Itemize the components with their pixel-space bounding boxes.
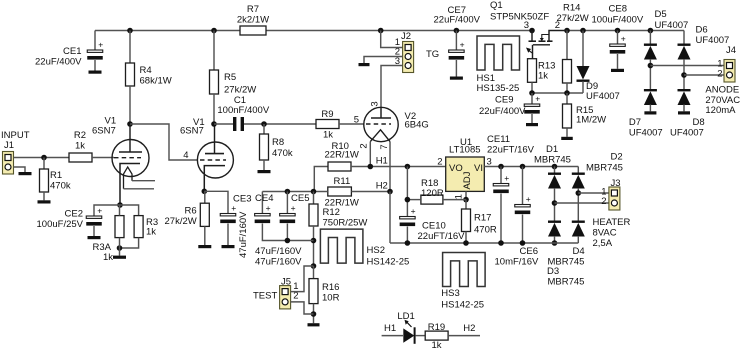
capacitor CE8 [610, 34, 626, 54]
wire J1 pin1 to R2 [14, 157, 70, 159]
wire R16 bottom [313, 304, 315, 324]
svg-text:47uF/160V: 47uF/160V [238, 211, 249, 258]
svg-text:+: + [411, 206, 416, 216]
wire R15 top [566, 93, 568, 104]
svg-text:D4: D4 [573, 246, 585, 257]
ground under CE7 [450, 77, 463, 80]
wire LED to R19 [416, 335, 426, 337]
svg-text:J2: J2 [401, 31, 411, 42]
svg-text:1k: 1k [103, 252, 113, 263]
capacitor CE9 [524, 94, 540, 114]
label CE2 [65, 209, 83, 220]
pin label J5-1 [293, 281, 298, 292]
value D3 MBR745 [548, 277, 585, 288]
resistor R14 [563, 60, 572, 84]
value R10 22R/1W [325, 150, 359, 161]
svg-text:CE11: CE11 [487, 134, 510, 145]
wire cathode bus [262, 191, 327, 193]
svg-text:1k: 1k [538, 71, 548, 82]
svg-text:3: 3 [370, 101, 381, 106]
svg-text:UF4007: UF4007 [670, 128, 704, 139]
label R19 [428, 322, 445, 333]
value CE10 22uFT/16V [418, 231, 466, 242]
wire R3A bottom [119, 238, 121, 256]
svg-text:R19: R19 [428, 322, 445, 333]
connector J4 [724, 60, 735, 83]
svg-text:H2: H2 [463, 323, 475, 334]
wire V1a anode lead [129, 124, 131, 152]
label 8VAC [593, 228, 617, 239]
label J4 [726, 45, 736, 56]
node R18 left junction [405, 197, 411, 203]
svg-text:R5: R5 [224, 72, 236, 83]
label R7 [247, 4, 259, 15]
node R8 top [261, 121, 267, 127]
svg-text:R3A: R3A [93, 242, 112, 253]
label R16 [322, 282, 339, 293]
svg-text:27k/2W: 27k/2W [165, 216, 197, 227]
label R3A [93, 242, 112, 253]
wire J1 pin2 ground stub [14, 167, 26, 172]
label R17 [474, 213, 491, 224]
wire V1a anode to V1b grid [130, 124, 198, 160]
diode D5 [644, 44, 657, 60]
value D4 MBR745 [548, 257, 585, 268]
wire R1 top [43, 158, 45, 170]
svg-text:D5: D5 [655, 9, 667, 20]
svg-text:1k: 1k [75, 141, 85, 152]
resistor R19 [425, 331, 448, 340]
svg-text:+: + [291, 203, 296, 213]
svg-text:CE6: CE6 [520, 246, 538, 257]
wire R10 left corner [314, 167, 328, 192]
wire R15 bottom [566, 128, 568, 137]
regulator U1 LT1085 box [446, 157, 485, 191]
value D1 MBR745 [534, 155, 571, 166]
svg-text:CE2: CE2 [65, 209, 83, 220]
diode D1 [548, 173, 561, 189]
node D9 tap [580, 28, 586, 34]
wire H1 [351, 166, 446, 168]
svg-text:MBR745: MBR745 [586, 163, 623, 174]
label D4 [573, 246, 585, 257]
value R13 1k [538, 71, 548, 82]
wire to J4 pin2 [684, 74, 724, 76]
svg-text:10R: 10R [322, 292, 340, 303]
label V1 [105, 116, 117, 127]
svg-text:HS3: HS3 [441, 288, 459, 299]
pin label 7 rotated [379, 144, 390, 149]
svg-text:STP5NK50ZF: STP5NK50ZF [490, 12, 549, 23]
wire CE11 bottom [500, 194, 502, 244]
value R5 27k/2W [224, 85, 256, 96]
wire R16 top [313, 266, 315, 279]
heater stub A [132, 180, 155, 182]
label R6 [185, 206, 197, 217]
svg-text:1k: 1k [323, 130, 333, 141]
label R8 [272, 137, 284, 148]
svg-text:D3: D3 [547, 266, 559, 277]
svg-text:UF4007: UF4007 [655, 20, 689, 31]
wire C1 to R9 [244, 123, 316, 125]
svg-text:UF4007: UF4007 [696, 35, 730, 46]
resistor R13 [528, 59, 537, 83]
node Q1 drain [529, 28, 535, 34]
connector J3 [609, 187, 620, 210]
heater V1a [124, 167, 133, 189]
value R6 27k/2W [165, 216, 197, 227]
wire R9 to V2 grid [339, 123, 364, 125]
capacitor CE11 [493, 173, 509, 193]
svg-text:120mA: 120mA [705, 105, 736, 116]
svg-text:H2: H2 [376, 181, 388, 192]
ground under CE2 [88, 236, 101, 239]
label CE5 [291, 193, 309, 204]
wire J5 pin2 jumper [291, 302, 314, 314]
label J2 [401, 31, 411, 42]
svg-text:CE1: CE1 [63, 46, 81, 57]
wire CE8 ground [617, 54, 619, 69]
cathode V1a [120, 164, 140, 206]
wire V1b anode lead [214, 124, 216, 154]
svg-text:2: 2 [437, 157, 442, 168]
node CE7 tap [454, 28, 460, 34]
svg-text:4: 4 [183, 150, 188, 161]
wire VI rail [484, 166, 578, 168]
value R17 470R [474, 225, 497, 236]
svg-text:2,5A: 2,5A [593, 238, 613, 249]
wire D6 drop [683, 31, 685, 44]
resistor R12 [309, 204, 318, 226]
label R10 [332, 141, 349, 152]
wire R1 bottom [43, 192, 45, 200]
resistor R3A [115, 216, 124, 238]
tube V1 second triode envelope [197, 142, 233, 178]
pin label 5 [354, 115, 359, 126]
label INPUT [1, 130, 30, 141]
wire V2 anode lead [380, 108, 382, 119]
svg-text:+: + [621, 34, 626, 44]
transistor Q1 MOSFET [526, 31, 567, 59]
label 120mA [705, 105, 736, 116]
label R4 [140, 65, 152, 76]
label 270VAC [705, 95, 740, 106]
svg-text:22uF/400V: 22uF/400V [479, 106, 526, 117]
node V2 pin2 junction [368, 164, 374, 170]
resistor R11 [328, 187, 352, 196]
node R4 top [127, 28, 133, 34]
label R15 [576, 105, 593, 116]
wire R5 bottom [213, 94, 215, 124]
wire R2 to V1 grid [92, 157, 114, 159]
pin label J5-2 [293, 291, 298, 302]
wire R8 bottom [263, 160, 265, 170]
wire CE5 bottom [286, 224, 288, 241]
label U1 [460, 137, 472, 148]
svg-text:3: 3 [524, 20, 529, 31]
wire rail to J2 pin1 [381, 31, 403, 48]
svg-text:CE8: CE8 [609, 4, 627, 15]
label D9 [586, 81, 598, 92]
wire R5 top [213, 31, 215, 71]
svg-text:H1: H1 [376, 156, 388, 167]
wire CE1 drop [94, 31, 96, 51]
resistor R9 [316, 120, 339, 129]
label R18 [421, 178, 438, 189]
wire J5 pin1 jumper [291, 266, 314, 292]
value HS3 HS142-25 [441, 300, 484, 311]
svg-text:D8: D8 [693, 117, 705, 128]
node ADJ junction [463, 197, 469, 203]
node R16 bottom [311, 311, 317, 317]
label D6 [696, 25, 708, 36]
node R1 top [41, 155, 47, 161]
wire cathode to R6 [204, 191, 206, 203]
value 6B4G [405, 120, 429, 131]
wire D6-D8 link [683, 59, 685, 89]
node CE8 tap [615, 28, 621, 34]
capacitor CE7 [449, 40, 465, 60]
wire R4 bottom [129, 86, 131, 124]
anode plate V1a [119, 151, 142, 153]
svg-text:R6: R6 [185, 206, 197, 217]
wire CE9 ground [531, 114, 533, 123]
capacitor CE4 [255, 203, 271, 223]
pin label J4-1 [717, 59, 722, 70]
tube V1 first triode envelope [112, 140, 149, 177]
label CE1 [63, 46, 81, 57]
svg-text:2: 2 [359, 143, 370, 148]
svg-text:D1: D1 [546, 144, 558, 155]
label D2 [611, 152, 623, 163]
svg-text:D6: D6 [696, 25, 708, 36]
filament V2 [370, 130, 390, 142]
svg-text:CE3: CE3 [233, 194, 251, 205]
wire R12 bottom [313, 226, 315, 266]
wire R3A top [119, 205, 121, 216]
value CE1 22uF/400V [35, 57, 82, 68]
value R8 470k [272, 148, 293, 159]
svg-text:27k/2W: 27k/2W [557, 13, 589, 24]
label R1 [50, 170, 62, 181]
svg-text:TG: TG [426, 49, 439, 60]
grid V1a dashed [114, 157, 141, 159]
wire J2 pin2 to ground [364, 57, 403, 64]
svg-text:10mF/16V: 10mF/16V [495, 257, 539, 268]
wire R14 drop [566, 31, 568, 60]
label TG [426, 49, 439, 60]
svg-text:100uF/25V: 100uF/25V [37, 219, 84, 230]
node V1b cathode [202, 189, 208, 195]
svg-text:VI: VI [474, 163, 483, 174]
wire CE6 bottom [522, 215, 524, 244]
label HEATER [593, 217, 631, 228]
node Q1 source rail [564, 28, 570, 34]
heatsink HS2 [320, 229, 363, 263]
svg-text:470k: 470k [272, 148, 293, 159]
svg-text:R12: R12 [323, 207, 340, 218]
ground under R3A [113, 256, 126, 259]
svg-text:MBR745: MBR745 [548, 277, 585, 288]
wire CE10 bottom [406, 227, 408, 244]
svg-text:120R: 120R [421, 188, 444, 199]
value R16 10R [322, 292, 340, 303]
svg-text:R16: R16 [322, 282, 339, 293]
label CE11 [487, 134, 510, 145]
node V1a anode [127, 121, 133, 127]
svg-text:R2: R2 [74, 130, 86, 141]
wire D4 bottom [554, 236, 556, 243]
node V1a cathode [117, 202, 123, 208]
resistor R15 [563, 104, 572, 128]
pin label J2-3 [395, 56, 400, 67]
wire cathode to R3 [120, 205, 139, 216]
value D5 UF4007 [655, 20, 689, 31]
resistor R17 [462, 209, 471, 232]
svg-text:1k: 1k [431, 340, 441, 350]
node R12-CE45 join [311, 238, 317, 244]
resistor R2 [69, 153, 92, 162]
resistor R10 [328, 162, 351, 171]
wire V2 pin2 to H1 [369, 142, 371, 167]
diode D8 [678, 89, 691, 105]
wire CE5 drop [286, 192, 288, 214]
value CE4 47uF/160V [255, 246, 302, 257]
wire top B+ rail left section [95, 30, 532, 32]
connector J1 [3, 152, 14, 175]
label CE10 [422, 221, 446, 232]
label Q1 [490, 0, 503, 11]
diode D3 [572, 221, 585, 237]
node R17 bottom [463, 240, 469, 246]
pin label Q1-2 [555, 20, 560, 31]
value CE5 47uF/160V [255, 256, 302, 267]
capacitor CE5 [280, 203, 296, 223]
value R11 22R/1W [325, 198, 359, 209]
svg-text:R17: R17 [474, 213, 491, 224]
node CE6 bottom [520, 240, 526, 246]
wire CE7 drop [455, 31, 457, 51]
svg-text:+: + [526, 194, 531, 204]
wire R19 to H2 [448, 335, 480, 337]
ground at J1 [19, 172, 32, 175]
node AC2 junction [681, 72, 687, 78]
svg-text:100nF/400V: 100nF/400V [217, 105, 269, 116]
node R5 top [211, 28, 217, 34]
diode D7 [644, 89, 657, 105]
wire CE6 drop [522, 167, 524, 205]
wire R17 bottom [465, 232, 467, 244]
label R3 [146, 217, 158, 228]
resistor R4 [126, 63, 135, 86]
svg-text:J5: J5 [281, 276, 291, 287]
label D3 [547, 266, 559, 277]
svg-text:+: + [98, 40, 103, 50]
connector J2 [403, 42, 414, 73]
node VO-CE10 tap [405, 164, 411, 170]
svg-text:CE4: CE4 [255, 193, 273, 204]
capacitor CE1 [87, 40, 103, 60]
value R18 120R [421, 188, 444, 199]
ground under D7 [644, 111, 656, 114]
wire CE11 drop [500, 167, 502, 184]
ground under R8 [258, 170, 271, 173]
svg-text:R7: R7 [247, 4, 259, 15]
svg-text:MBR745: MBR745 [534, 155, 571, 166]
svg-text:22uFT/16V: 22uFT/16V [487, 145, 535, 156]
svg-text:CE9: CE9 [495, 95, 513, 106]
label D1 [546, 144, 558, 155]
wire H2 to bottom rail [389, 192, 391, 244]
ground under D8 [678, 111, 690, 114]
svg-text:ADJ: ADJ [462, 171, 473, 189]
label D8 [693, 117, 705, 128]
label J3 [611, 178, 621, 189]
wire cathode to CE3 [204, 191, 228, 213]
pin label Q1-3 [524, 20, 529, 31]
ground under CE3 [222, 245, 235, 248]
label J1 [4, 140, 14, 151]
node D2-D3 junction [576, 190, 582, 196]
label J5 [281, 276, 291, 287]
wire gate node bus [532, 92, 583, 94]
wire H2 [351, 191, 390, 193]
label H1 LED [384, 323, 396, 334]
value CE6 10mF/16V [495, 257, 539, 268]
svg-text:1k: 1k [146, 227, 156, 238]
node CE5 top [285, 189, 291, 195]
wire R3 bottom join [120, 238, 139, 248]
label CE7 [448, 5, 466, 16]
label CE6 [520, 246, 538, 257]
diode D2 [572, 173, 585, 189]
wire cathode to CE2 [94, 205, 120, 216]
svg-text:R9: R9 [321, 109, 333, 120]
svg-text:LD1: LD1 [397, 311, 414, 322]
pin label J4-2 [717, 68, 722, 79]
node D4 bottom [552, 240, 558, 246]
svg-text:5: 5 [354, 115, 359, 126]
wire J2 pin3 to V2 anode [381, 66, 403, 108]
svg-text:22uF/400V: 22uF/400V [35, 57, 82, 68]
wire R13 bottom [531, 82, 533, 93]
capacitor CE2 [86, 206, 102, 226]
wire R5 node to C1 [214, 123, 233, 125]
capacitor CE10 [400, 206, 416, 226]
heatsink HS3 [443, 253, 486, 287]
value HS142-25 [367, 257, 410, 268]
node V1b anode C1 [211, 121, 217, 127]
cathode V1b [204, 166, 225, 192]
value HS135-25 [477, 83, 520, 94]
wire CE4 bottom [262, 224, 313, 241]
label LD1 [397, 311, 414, 322]
node X R10R11R12 [311, 189, 317, 195]
wire D8 ground lead [683, 105, 685, 112]
label CE3 [233, 194, 251, 205]
label H2 LED [463, 323, 475, 334]
wire CE3 ground [227, 224, 229, 246]
svg-text:+: + [97, 206, 102, 216]
value CE3 47uF/160V rotated [238, 211, 249, 258]
resistor R6 [200, 203, 209, 226]
ground at J2 pin2 [359, 63, 370, 66]
pin label J3-2 [601, 196, 606, 207]
svg-text:LT1085: LT1085 [449, 145, 481, 156]
svg-text:HS2: HS2 [367, 245, 385, 256]
value CE9 22uF/400V [479, 106, 526, 117]
label C1 [234, 95, 246, 106]
